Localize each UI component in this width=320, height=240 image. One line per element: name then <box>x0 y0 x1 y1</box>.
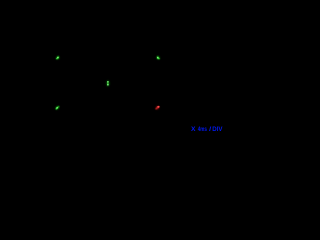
node B : green voltage marker top-right <box>156 56 159 59</box>
node D : green voltage marker bottom-left <box>56 106 59 109</box>
node C : green vertical element centre <box>106 80 109 86</box>
svg-text:/: / <box>209 126 211 133</box>
scope scale label "X 4ms / DIV" <box>191 126 223 133</box>
svg-text:4ms: 4ms <box>198 126 207 133</box>
node E : red voltage marker bottom-right <box>156 106 160 110</box>
svg-text:DIV: DIV <box>212 126 223 133</box>
svg-text:X: X <box>191 126 196 133</box>
node A : green voltage marker top-left <box>56 56 59 59</box>
